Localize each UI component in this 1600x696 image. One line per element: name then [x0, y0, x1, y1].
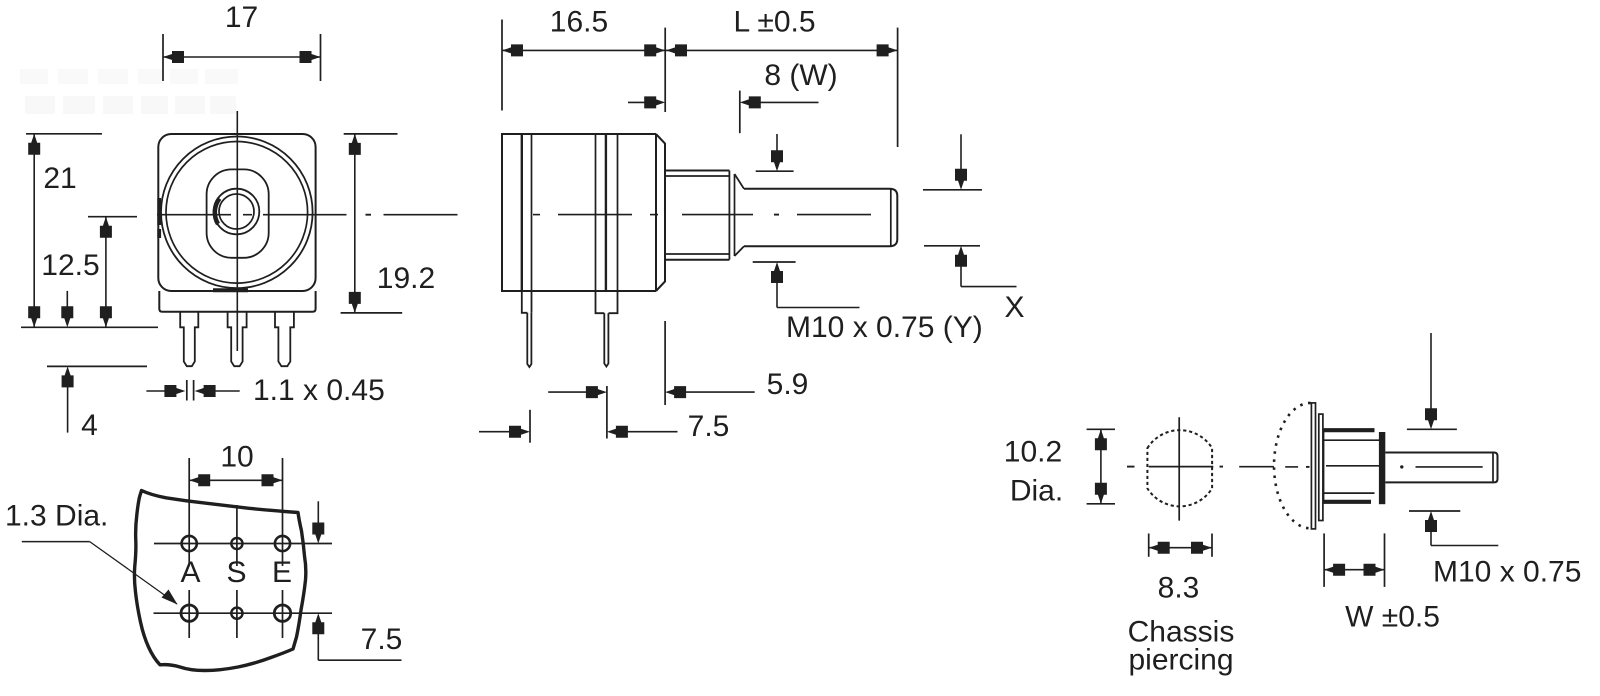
dimension M10 bottom tick — [1409, 510, 1460, 512]
dimension 12.5 line and arrows — [100, 217, 112, 328]
label 10 — [220, 441, 253, 474]
bushing-to-shaft chamfer — [735, 174, 745, 256]
svg-text:12.5: 12.5 — [41, 249, 99, 282]
footprint column E centerline — [282, 458, 284, 638]
label 16.5 — [550, 6, 608, 39]
label 21 — [43, 162, 76, 195]
pin tip reference line — [47, 365, 147, 367]
thick marks on body left edge — [157, 198, 161, 238]
label 8 (W) — [764, 59, 837, 92]
side view internal line d — [605, 134, 607, 291]
label E — [272, 556, 292, 589]
mounted bushing thin line top — [1324, 439, 1379, 441]
side view centerline — [533, 214, 871, 216]
front view pin 1 — [180, 312, 198, 366]
dimension 8(W) right arrow — [740, 96, 819, 108]
panel plate — [1311, 403, 1315, 529]
mounted shaft centerline — [1400, 465, 1483, 468]
front view body outline — [158, 134, 315, 291]
front view rotor inner circle — [166, 142, 308, 284]
hole S2 — [231, 608, 242, 619]
side view internal line a — [521, 134, 523, 291]
washer plate — [1319, 414, 1323, 520]
svg-text:W ±0.5: W ±0.5 — [1345, 601, 1440, 634]
footprint dimension 7.5 top arrow — [312, 501, 324, 543]
dimension L line and arrows — [666, 44, 898, 56]
mounted bushing thin line bottom — [1324, 492, 1375, 494]
dimension 19.2 line and arrows — [349, 134, 361, 313]
front view terminal strip — [159, 291, 315, 312]
side view pin 2 shoulder — [596, 291, 618, 313]
label A — [180, 556, 200, 589]
label 1.1 x 0.45 — [253, 374, 385, 407]
svg-text:X: X — [1004, 291, 1024, 324]
dimension 4 lower arrow — [62, 366, 74, 432]
mounted shaft outline — [1385, 453, 1497, 483]
label M10 x 0.75 — [1433, 556, 1581, 589]
pin seating plane line — [21, 326, 158, 328]
svg-text:M10 x 0.75: M10 x 0.75 — [1433, 556, 1581, 589]
svg-text:10: 10 — [220, 441, 253, 474]
dimension M10 top arrow — [1425, 333, 1437, 429]
dimension W line and arrows — [1324, 564, 1384, 576]
M10 thread dimension top arrow — [771, 134, 783, 171]
dimension X top arrow — [955, 134, 967, 190]
front view shaft bore circle — [219, 194, 254, 229]
svg-text:5.9: 5.9 — [767, 368, 809, 401]
dotted knob dome — [1274, 403, 1310, 528]
dimension X top reference line — [923, 189, 982, 191]
label W ±0.5 — [1345, 601, 1440, 634]
dimension 10.2 ticks — [1087, 429, 1115, 504]
label 7.5 side — [688, 410, 730, 443]
svg-text:Dia.: Dia. — [1010, 475, 1063, 508]
dimension 10.2 line and arrows — [1095, 429, 1107, 504]
leader line for 1.3 Dia. — [22, 542, 178, 605]
dimension 1.1x0.45 ticks — [187, 380, 194, 401]
side view pin 1 — [527, 313, 531, 367]
dimension 17 line and arrows — [163, 51, 321, 63]
side view body outline — [502, 134, 665, 291]
front view horizontal centerline — [157, 214, 347, 216]
label 8.3 — [1158, 572, 1200, 605]
svg-text:1.1 x 0.45: 1.1 x 0.45 — [253, 374, 385, 407]
hole S1 — [231, 538, 242, 549]
mounted bushing thick top band — [1324, 428, 1375, 432]
mounted bushing end bar — [1379, 432, 1385, 504]
dimension 1.1x0.45 left arrow — [146, 385, 185, 397]
label 1.3 Dia. — [5, 500, 108, 533]
label piercing — [1128, 644, 1233, 677]
label 17 — [225, 1, 258, 34]
dimension 7.5 left arrow — [479, 426, 530, 438]
shaft end inner line — [890, 190, 892, 246]
dimension 5.9 right arrow — [665, 386, 755, 398]
dimension 5.9 left arrow — [548, 386, 607, 398]
label 19.2 — [377, 262, 435, 295]
dimension 5.9 extension line at pin — [606, 386, 608, 439]
dimension 19.2 extension lines — [341, 134, 403, 313]
svg-text:7.5: 7.5 — [361, 623, 403, 656]
dimension 8(W) left arrow — [628, 96, 665, 108]
M10 thread top reference line — [756, 170, 794, 172]
front view vertical centerline — [236, 111, 238, 351]
side view internal line b — [531, 134, 533, 291]
label 7.5 footprint — [361, 623, 403, 656]
footprint column A centerline — [188, 458, 190, 638]
dimension 10 line and arrows — [189, 474, 282, 486]
dimension 7.5 right arrow — [607, 426, 678, 438]
label 10.2 — [1004, 436, 1062, 469]
dimension 21 extension line top — [26, 133, 102, 135]
svg-text:M10 x 0.75 (Y): M10 x 0.75 (Y) — [786, 311, 983, 344]
dimension X bottom reference line — [924, 245, 980, 247]
svg-text:8.3: 8.3 — [1158, 572, 1200, 605]
dimension M10 bottom arrow — [1425, 511, 1498, 546]
label S — [226, 556, 246, 589]
dimension 4 upper arrow — [61, 291, 73, 327]
dimension 8(W) extension line — [739, 91, 741, 134]
bushing thread inner lines — [665, 176, 729, 254]
chassis hole centerline dash left — [1127, 466, 1135, 468]
svg-text:L ±0.5: L ±0.5 — [733, 6, 815, 39]
mounted shaft end inner line — [1492, 454, 1494, 482]
front view bushing outer circle — [214, 189, 260, 235]
centerline dash-dot toward side view — [366, 214, 458, 216]
M10 thread dimension bottom arrow — [771, 262, 860, 308]
svg-text:1.3 Dia.: 1.3 Dia. — [5, 500, 108, 533]
footprint column S centerline — [236, 505, 238, 638]
thick mark at rotor bottom tangent — [213, 288, 248, 292]
label M10 x 0.75 (Y) — [786, 311, 983, 344]
svg-text:16.5: 16.5 — [550, 6, 608, 39]
label 12.5 — [41, 249, 99, 282]
svg-text:4: 4 — [81, 409, 98, 442]
dimension M10 top tick — [1407, 428, 1457, 430]
svg-text:8 (W): 8 (W) — [764, 59, 837, 92]
dimension W ticks — [1324, 533, 1384, 587]
mounted bushing left edge — [1323, 428, 1325, 504]
dimension X bottom arrow — [955, 246, 1017, 287]
svg-text:17: 17 — [225, 1, 258, 34]
front view pin 2 (center) — [228, 312, 247, 366]
dimension 8.3 line and arrows — [1149, 542, 1212, 554]
dimension 21 line and arrows — [28, 134, 40, 327]
dimension L extension line — [897, 28, 899, 147]
label 4 — [81, 409, 98, 442]
footprint dimension 7.5 bottom arrow — [312, 613, 401, 660]
label Chassis — [1128, 616, 1235, 649]
label Dia. — [1010, 475, 1063, 508]
footprint blob outline — [134, 491, 305, 671]
label 5.9 — [767, 368, 809, 401]
bushing thread outer lines — [665, 171, 729, 260]
svg-text:7.5: 7.5 — [688, 410, 730, 443]
label L ±0.5 — [733, 6, 815, 39]
dimension 16.5 line and arrows — [502, 44, 665, 56]
chassis piercing hole outline (double-D) — [1147, 430, 1212, 506]
side view pin 1 shoulder — [522, 291, 532, 313]
mounted bushing mid line — [1326, 465, 1380, 467]
dimension 7.5 left extension line — [529, 410, 531, 443]
svg-text:A: A — [180, 556, 200, 589]
svg-text:piercing: piercing — [1128, 644, 1233, 677]
footprint row 1 centerline — [154, 543, 332, 545]
side view pin 2 — [604, 313, 608, 366]
shaft outline — [744, 189, 897, 247]
side view internal line c — [595, 134, 597, 291]
chassis hole crosshair — [1149, 417, 1214, 520]
dimension 1.1x0.45 right arrow — [195, 385, 240, 397]
faint erased watermark — [20, 69, 238, 114]
svg-text:S: S — [226, 556, 246, 589]
centerline dash at dome — [1285, 466, 1309, 468]
mounted bushing right thin edge — [1381, 432, 1383, 504]
mounted bushing thick bottom band — [1324, 500, 1371, 504]
side view internal line e — [617, 134, 619, 291]
hole A1 — [182, 536, 197, 551]
centerline dash between views — [1239, 466, 1274, 468]
M10 thread bottom reference line — [753, 261, 796, 263]
chassis hole centerline dot right — [1220, 466, 1224, 468]
svg-text:21: 21 — [43, 162, 76, 195]
dimension 8.3 ticks — [1149, 534, 1212, 557]
svg-text:E: E — [272, 556, 292, 589]
dimension 5.9 extension line at bushing base — [664, 321, 666, 405]
dimension 16.5 extension lines — [502, 20, 665, 113]
footprint row 2 centerline — [154, 612, 333, 614]
dimension 12.5 extension line — [88, 216, 137, 218]
hole E2 — [274, 605, 290, 621]
hole A2 — [181, 605, 197, 621]
dimension 17 extension lines — [163, 34, 321, 81]
svg-text:10.2: 10.2 — [1004, 436, 1062, 469]
svg-text:19.2: 19.2 — [377, 262, 435, 295]
bushing end face — [729, 171, 734, 260]
front view rotor outer circle — [161, 137, 313, 289]
front view pin 3 — [275, 312, 294, 366]
hole E1 — [275, 536, 290, 551]
thick arc artifact on bushing left — [215, 199, 220, 225]
label X — [1004, 291, 1024, 324]
front view capsule boss — [207, 169, 269, 257]
